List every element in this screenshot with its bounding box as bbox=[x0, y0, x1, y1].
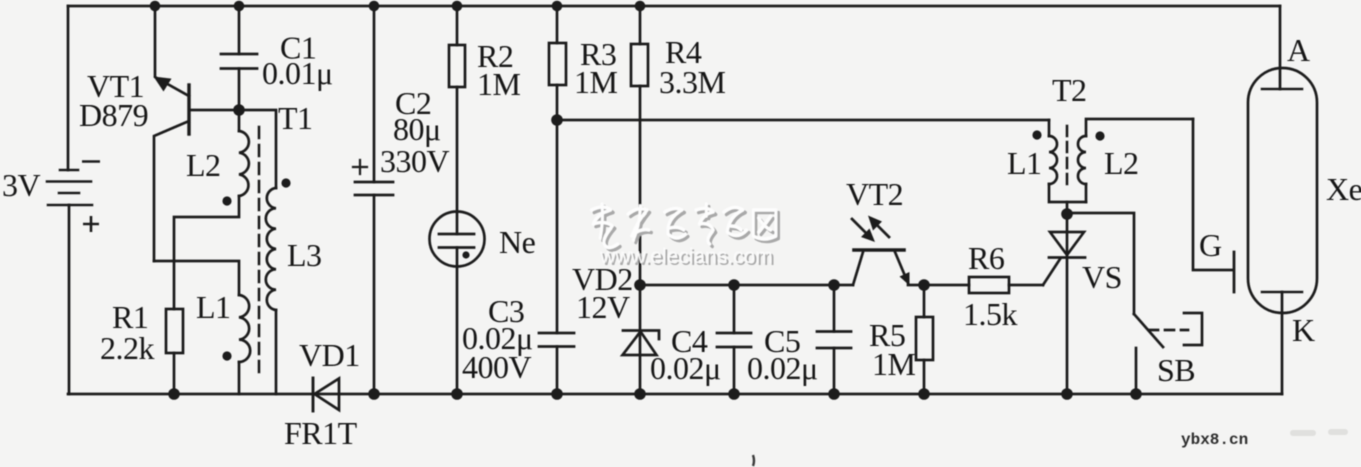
svg-text:400V: 400V bbox=[462, 349, 532, 385]
svg-text:330V: 330V bbox=[380, 143, 450, 179]
svg-text:VD1: VD1 bbox=[299, 337, 360, 373]
node bottom R1 bbox=[168, 388, 180, 400]
T2 L1 phase dot bbox=[1032, 130, 1041, 139]
node bottom VS bbox=[1061, 388, 1073, 400]
T2 L2 phase dot bbox=[1095, 131, 1104, 140]
svg-text:3V: 3V bbox=[2, 167, 41, 203]
wire rail y285 VD2 to VT2 collector bbox=[640, 284, 853, 287]
node top R3 bbox=[552, 1, 563, 12]
wire G lead down and across bbox=[1193, 119, 1233, 270]
resistor R3 bbox=[549, 6, 566, 120]
T1 L2 phase dot bbox=[222, 196, 231, 205]
G trigger electrode bar bbox=[1233, 252, 1236, 292]
transformer T2 winding L2 bbox=[1078, 119, 1193, 202]
svg-text:12V: 12V bbox=[576, 289, 630, 325]
svg-text:T2: T2 bbox=[1052, 72, 1087, 108]
transformer T2 core bbox=[1066, 126, 1069, 188]
svg-text:A: A bbox=[1287, 32, 1310, 68]
wire VT1 collector lead bbox=[155, 6, 189, 96]
svg-text:1.5k: 1.5k bbox=[963, 296, 1018, 332]
svg-text:1M: 1M bbox=[477, 66, 521, 102]
svg-text:1M: 1M bbox=[872, 346, 916, 382]
VT2 light arrow 2 bbox=[868, 216, 889, 238]
node bottom R5 bbox=[918, 388, 930, 400]
node bottom C3 bbox=[551, 388, 563, 400]
diode VD1 bbox=[313, 378, 339, 411]
wire trigger line y120 to T2 bbox=[557, 119, 1049, 122]
label battery plus bbox=[83, 216, 99, 232]
thyristor VS bbox=[1049, 214, 1085, 394]
node C5 top bbox=[828, 279, 840, 291]
node bottom C2 bbox=[368, 388, 380, 400]
transformer T1 core bbox=[258, 127, 261, 378]
node C4 top bbox=[728, 279, 740, 291]
svg-text:0.01μ: 0.01μ bbox=[262, 55, 333, 91]
node VD2 top bbox=[634, 279, 646, 291]
node R5 top bbox=[918, 279, 930, 291]
svg-text:T1: T1 bbox=[278, 100, 313, 136]
node VT1 base / C1 bbox=[233, 104, 245, 116]
wire bottom rail bbox=[68, 393, 1282, 396]
capacitor C5 bbox=[817, 285, 851, 394]
svg-text:80μ: 80μ bbox=[393, 111, 441, 147]
wire left rail (battery top lead) bbox=[67, 6, 70, 170]
T1 L3 phase dot bbox=[281, 178, 290, 187]
svg-text:VT2: VT2 bbox=[846, 176, 903, 212]
node top R2 bbox=[452, 1, 463, 12]
Xe anode lead and electrode bbox=[1262, 6, 1302, 89]
svg-text:3.3M: 3.3M bbox=[659, 64, 726, 100]
node bottom SB bbox=[1130, 388, 1142, 400]
node R3 trigger line bbox=[551, 114, 563, 126]
node top C2 bbox=[369, 1, 380, 12]
transformer T1 winding L3 bbox=[239, 110, 276, 394]
node bottom VD2 bbox=[634, 388, 646, 400]
transformer T1 winding L1 bbox=[239, 295, 250, 394]
capacitor C1 bbox=[221, 6, 257, 110]
transformer T2 winding L1 bbox=[1049, 120, 1086, 202]
node VS anode bbox=[1061, 208, 1073, 220]
svg-text:R6: R6 bbox=[968, 240, 1005, 276]
transformer T1 winding L2 bbox=[239, 110, 249, 196]
wire VT2 emitter rail to R6 bbox=[908, 284, 969, 287]
resistor R1 bbox=[166, 309, 183, 394]
resistor R2 bbox=[449, 6, 465, 212]
faint smudge remnants bottom right bbox=[1290, 429, 1348, 436]
wire top rail bbox=[68, 5, 1280, 8]
svg-text:FR1T: FR1T bbox=[284, 415, 358, 451]
watermark url www.elecians.com bbox=[599, 245, 775, 270]
zener diode VD2 bbox=[623, 285, 660, 394]
svg-text:0.02μ: 0.02μ bbox=[650, 350, 721, 386]
svg-text:K: K bbox=[1292, 312, 1315, 348]
svg-text:L3: L3 bbox=[287, 237, 322, 273]
node top VT1 bbox=[150, 1, 161, 12]
wire battery bottom lead bbox=[68, 205, 71, 394]
watermark chinese script (embossed) bbox=[591, 204, 778, 250]
node top C1 bbox=[234, 1, 245, 12]
capacitor C4 bbox=[717, 285, 751, 394]
svg-text:L2: L2 bbox=[1104, 145, 1139, 181]
transistor VT1 bbox=[154, 77, 190, 262]
svg-text:Xe: Xe bbox=[1326, 171, 1361, 207]
wire node to SB branch bbox=[1067, 213, 1134, 314]
svg-text:G: G bbox=[1199, 227, 1222, 263]
svg-text:2.2k: 2.2k bbox=[100, 330, 155, 366]
resistor R6 bbox=[969, 277, 1043, 293]
svg-text:ybx8.cn: ybx8.cn bbox=[1181, 431, 1248, 449]
resistor R4 bbox=[631, 6, 648, 285]
svg-text:L1: L1 bbox=[196, 289, 231, 325]
svg-text:0.02μ: 0.02μ bbox=[747, 350, 818, 386]
phototransistor VT2 bbox=[853, 250, 910, 286]
switch SB bbox=[1134, 313, 1202, 394]
T1 L1 phase dot bbox=[222, 351, 231, 360]
xenon tube Xe envelope bbox=[1248, 68, 1317, 313]
svg-text:L1: L1 bbox=[1007, 145, 1042, 181]
svg-text:L2: L2 bbox=[186, 147, 221, 183]
wire emitter run to T1 L1 bbox=[154, 261, 239, 295]
wire L2 bottom to R1 top bbox=[174, 196, 239, 309]
node bottom C5 bbox=[828, 388, 840, 400]
svg-text:D879: D879 bbox=[79, 97, 148, 133]
wire VT1 base to node bbox=[189, 109, 239, 112]
node bottom Ne bbox=[451, 388, 463, 400]
wire T2 centre tap to VS anode node bbox=[1066, 202, 1069, 214]
svg-text:SB: SB bbox=[1157, 352, 1195, 388]
VT2 light arrow 1 bbox=[852, 219, 875, 242]
node top R4 bbox=[635, 1, 646, 12]
svg-text:Ne: Ne bbox=[499, 224, 536, 260]
svg-text:1M: 1M bbox=[574, 64, 618, 100]
wire R3 node down to C3 bbox=[556, 120, 559, 333]
svg-text:www.elecians.com: www.elecians.com bbox=[599, 245, 773, 268]
resistor R5 bbox=[916, 285, 933, 394]
Xe cathode electrode and lead bbox=[1262, 292, 1302, 394]
stray mark bottom centre bbox=[753, 455, 754, 466]
node bottom C4 bbox=[728, 388, 740, 400]
neon lamp Ne bbox=[430, 212, 485, 395]
wire R6 to VS gate bbox=[1043, 259, 1060, 285]
label battery minus bbox=[82, 160, 100, 163]
capacitor C2 bbox=[353, 6, 393, 394]
battery GB 3V bbox=[47, 170, 92, 205]
svg-text:VS: VS bbox=[1082, 259, 1122, 295]
capacitor C3 bbox=[539, 333, 574, 394]
